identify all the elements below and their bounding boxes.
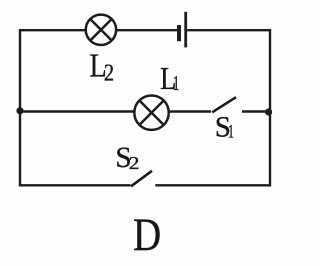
lamp L1 — [134, 96, 168, 130]
battery cell: short thick plate — [177, 25, 181, 41]
svg-text:2: 2 — [104, 59, 114, 86]
switch S2 blade — [131, 171, 152, 187]
label S1 subscript — [228, 122, 234, 142]
svg-text:D: D — [133, 210, 161, 261]
node right junction — [265, 108, 272, 115]
svg-text:1: 1 — [173, 72, 179, 95]
label L1 letter — [160, 62, 176, 97]
label L2 letter — [90, 46, 107, 84]
svg-text:1: 1 — [228, 122, 234, 142]
wire middle: L1 to switch S1 — [169, 110, 211, 112]
label S1 letter — [215, 111, 231, 143]
label L2 subscript — [104, 59, 114, 86]
wire top-left + left side + bottom-left — [20, 30, 131, 185]
lamp L2 — [86, 15, 116, 45]
switch S1 blade — [212, 97, 236, 112]
wire middle left: node to lamp L1 — [20, 110, 134, 112]
wire top-right + right side + bottom-right — [155, 30, 270, 185]
label S2 subscript — [129, 154, 140, 173]
wire middle right: S1 to right node — [242, 110, 270, 112]
svg-text:2: 2 — [129, 154, 140, 173]
battery cell: long thin plate — [184, 12, 187, 48]
label L1 subscript — [173, 72, 179, 95]
wire top: L2 to battery — [116, 29, 177, 31]
answer letter D — [133, 210, 161, 261]
label S2 letter — [115, 142, 131, 174]
node left junction — [16, 107, 23, 114]
